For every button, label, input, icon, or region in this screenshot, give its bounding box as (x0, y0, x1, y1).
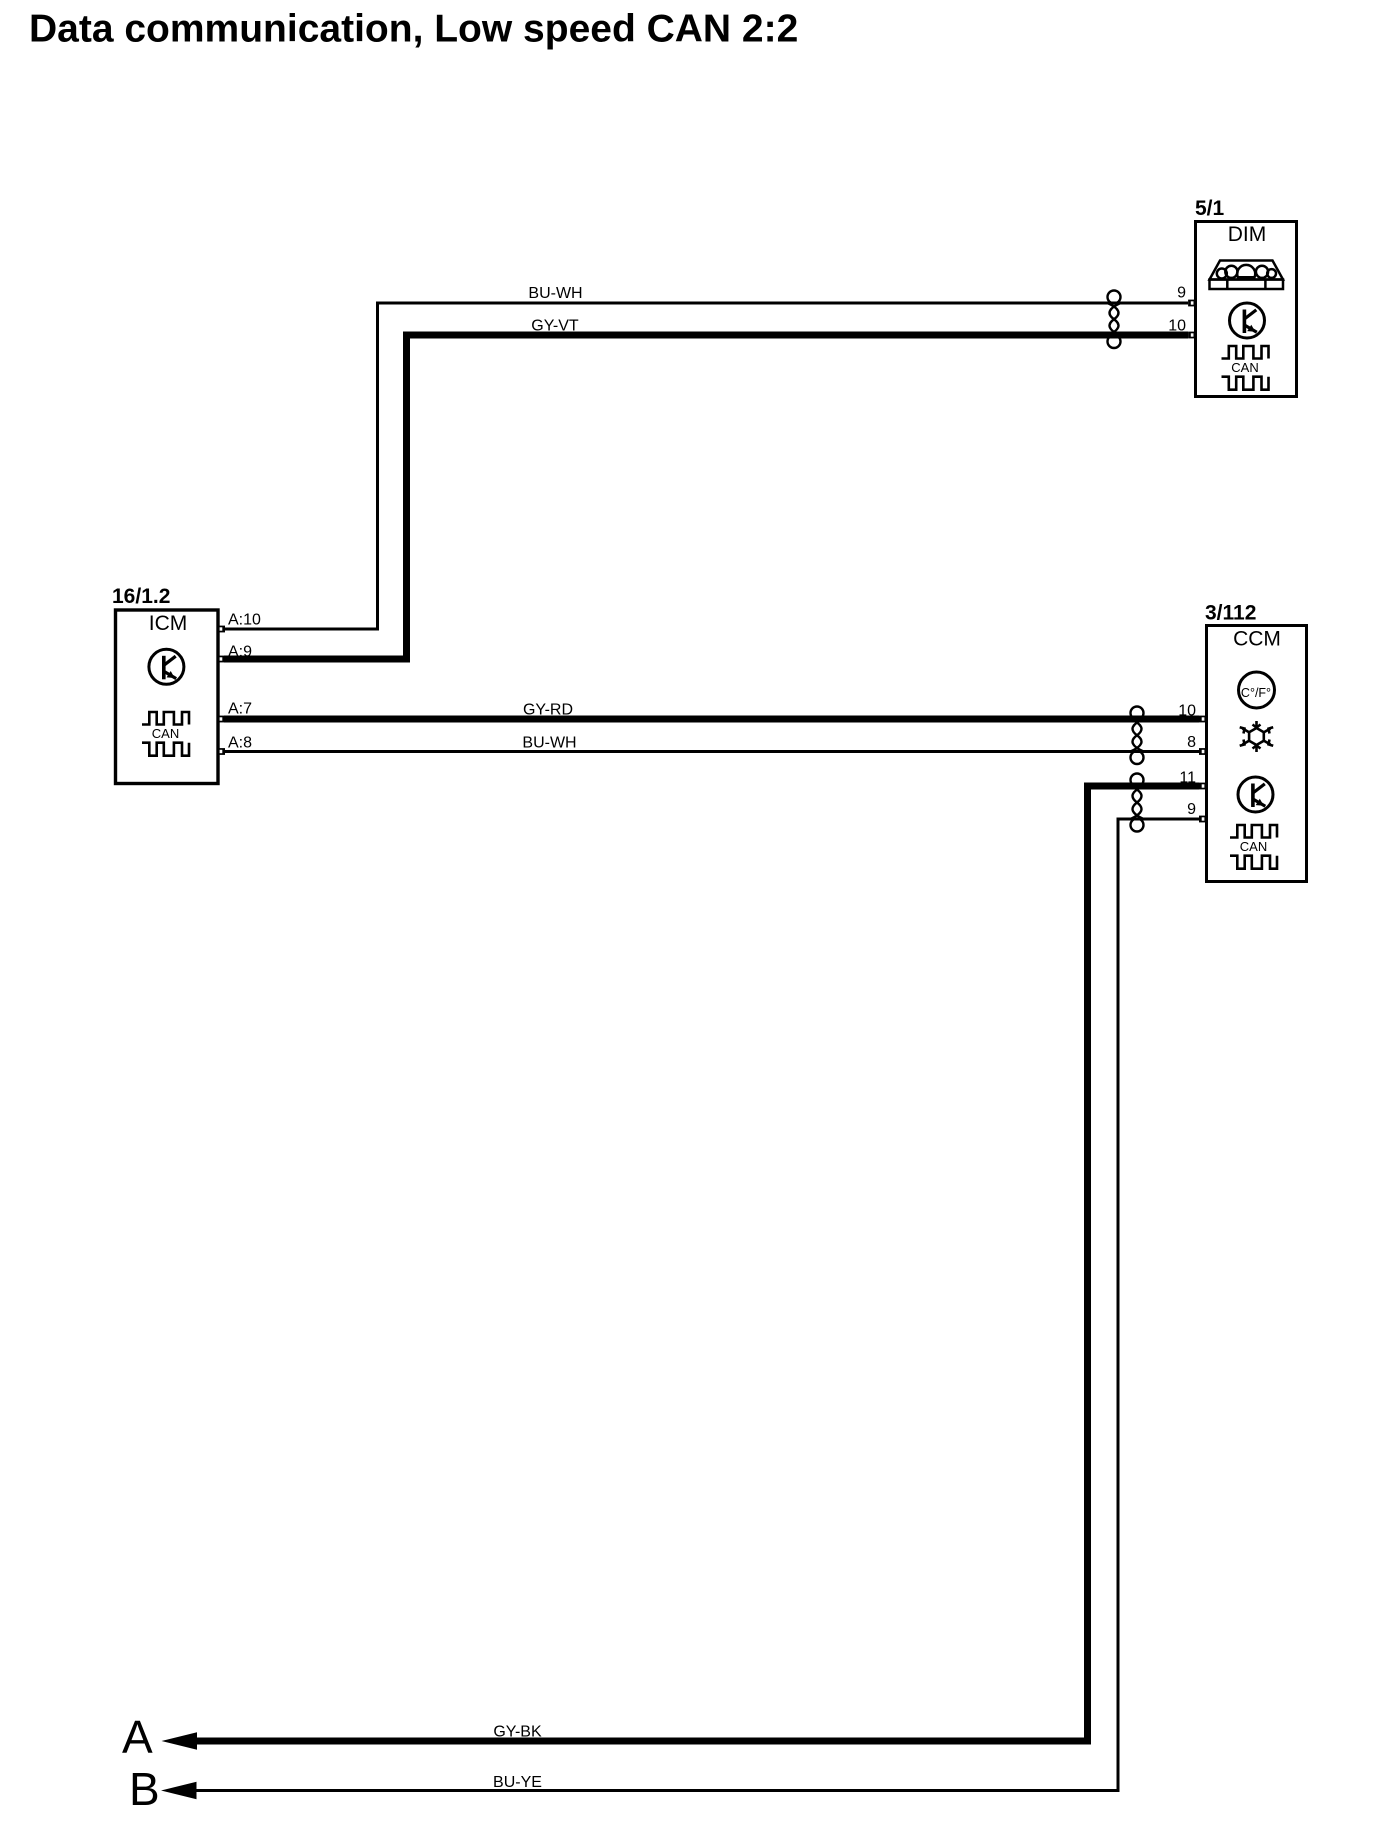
DIM pin 10 (1168, 318, 1194, 339)
svg-text:BU-WH: BU-WH (522, 735, 576, 752)
ICM pin A:7 (219, 701, 253, 723)
wire BU-YE (CCM 9 to connector B) (180, 819, 1199, 1791)
CCM K symbol (1238, 777, 1273, 812)
svg-text:11: 11 (1179, 770, 1196, 787)
svg-text:10: 10 (1178, 703, 1196, 720)
twisted pair symbol (CCM wires 10/8) (1131, 707, 1144, 765)
twisted pair symbol (CCM wires 11/9) (1131, 774, 1144, 832)
CCM pin 10 (1178, 703, 1205, 723)
svg-text:3/112: 3/112 (1205, 602, 1256, 625)
connector A arrow (122, 1711, 197, 1763)
svg-text:BU-YE: BU-YE (493, 1774, 542, 1791)
ICM CAN symbol (142, 712, 189, 756)
svg-text:9: 9 (1177, 285, 1186, 302)
svg-text:A:7: A:7 (228, 701, 252, 718)
ICM K symbol (149, 649, 184, 684)
connector B arrow (129, 1763, 197, 1815)
wire BU-WH (ICM A:8 to CCM 8) (224, 750, 1199, 753)
control module 16/1.2 ICM (112, 585, 218, 784)
svg-text:8: 8 (1187, 734, 1196, 751)
wire GY-RD (ICM A:7 to CCM 10) (224, 716, 1199, 723)
svg-text:BU-WH: BU-WH (528, 285, 582, 302)
svg-text:GY-RD: GY-RD (523, 702, 573, 719)
DIM pin 9 (1177, 285, 1194, 307)
CCM snowflake symbol (1240, 721, 1274, 752)
DIM K symbol (1230, 303, 1265, 338)
svg-text:16/1.2: 16/1.2 (112, 585, 170, 608)
CCM pin 9 (1187, 801, 1205, 822)
svg-text:A: A (122, 1711, 153, 1763)
ICM pin A:8 (219, 735, 253, 755)
control module 3/112 CCM (1205, 602, 1307, 882)
svg-text:5/1: 5/1 (1195, 197, 1225, 220)
wire BU-WH (ICM A:10 to DIM 9) (224, 303, 1188, 629)
svg-text:10: 10 (1168, 318, 1186, 335)
svg-text:GY-VT: GY-VT (531, 318, 579, 335)
svg-text:9: 9 (1187, 801, 1196, 818)
svg-text:CCM: CCM (1233, 628, 1281, 651)
svg-text:ICM: ICM (149, 612, 188, 635)
svg-text:GY-BK: GY-BK (493, 1724, 542, 1741)
svg-text:B: B (129, 1763, 160, 1815)
svg-text:A:10: A:10 (228, 612, 261, 629)
CCM pin 11 (1179, 770, 1205, 790)
control module 5/1 DIM (1195, 197, 1297, 397)
CCM CAN symbol (1230, 825, 1277, 869)
ICM pin A:10 (219, 612, 261, 633)
ICM pin A:9 (219, 644, 253, 663)
svg-text:DIM: DIM (1228, 223, 1267, 246)
CCM pin 8 (1187, 734, 1205, 755)
DIM CAN symbol (1222, 346, 1269, 390)
wire GY-VT (ICM A:9 to DIM 10) (224, 335, 1188, 659)
svg-text:C°/F°: C°/F° (1241, 686, 1271, 700)
svg-text:Data communication, Low speed: Data communication, Low speed CAN 2:2 (29, 8, 798, 51)
DIM instrument-cluster icon (1210, 261, 1284, 290)
twisted pair symbol (DIM wires 9/10) (1108, 291, 1121, 349)
CCM temperature C°/F° symbol (1239, 672, 1275, 708)
svg-text:A:9: A:9 (228, 644, 252, 661)
svg-text:A:8: A:8 (228, 735, 252, 752)
wire GY-BK (CCM 11 to connector A) (180, 786, 1199, 1741)
